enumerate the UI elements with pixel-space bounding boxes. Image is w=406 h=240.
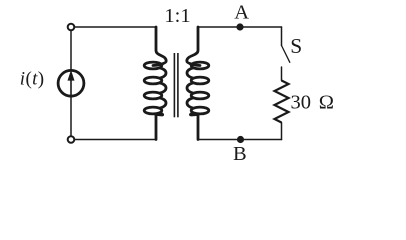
svg-text:i(t): i(t)	[20, 69, 45, 90]
svg-text:B: B	[233, 143, 247, 165]
current source arrow	[68, 70, 75, 97]
svg-text:S: S	[290, 34, 302, 58]
svg-text:A: A	[234, 2, 249, 24]
svg-text:1:1: 1:1	[164, 5, 190, 27]
wire left vertical lower	[70, 96, 72, 136]
wire bottom-left	[75, 139, 156, 141]
wire switch upper lead	[281, 27, 283, 46]
wire top-right	[198, 26, 282, 28]
svg-text:30: 30	[291, 92, 312, 114]
terminal top-left	[68, 24, 75, 31]
node B dot	[237, 136, 244, 143]
terminal bottom-left	[68, 136, 75, 143]
wire top-left	[75, 26, 156, 28]
resistor 30 ohm zigzag	[275, 81, 289, 123]
transformer core	[174, 53, 178, 117]
transformer secondary coil L2	[187, 27, 209, 140]
transformer primary coil L1	[144, 27, 166, 140]
current source i(t) circle	[58, 70, 84, 96]
wire bottom-right	[198, 139, 282, 141]
wire left vertical upper	[70, 31, 72, 71]
node A dot	[236, 23, 243, 30]
svg-text:Ω: Ω	[319, 92, 334, 114]
wire switch to resistor	[281, 67, 283, 81]
wire resistor bottom lead	[281, 123, 283, 140]
switch S blade	[282, 46, 290, 63]
